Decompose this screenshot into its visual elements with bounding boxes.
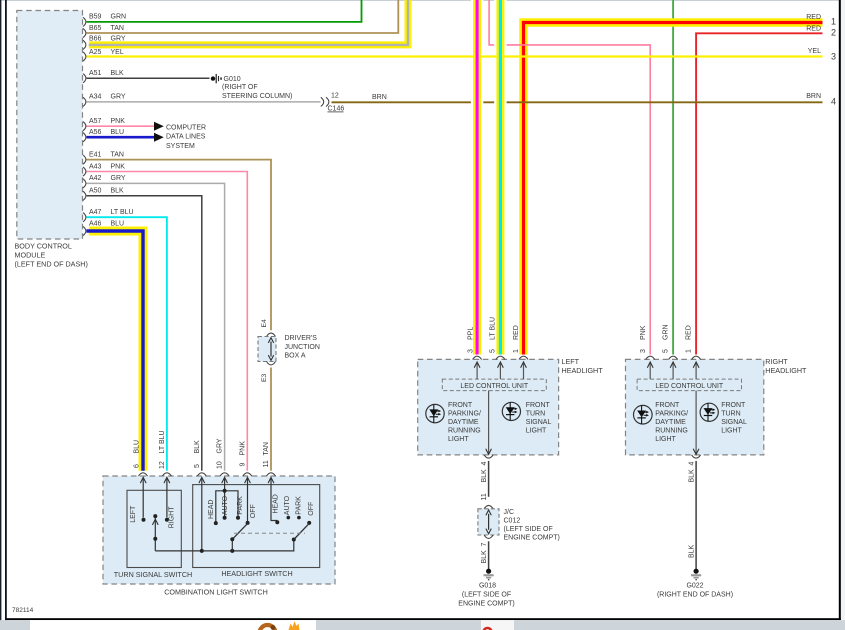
svg-text:B65: B65 [89,25,102,32]
svg-text:AUTO: AUTO [222,495,229,515]
svg-text:FRONT: FRONT [526,402,551,409]
svg-text:5: 5 [490,349,497,353]
pin A46 connector [83,226,86,235]
svg-text:RED: RED [513,325,520,340]
svg-text:G018: G018 [479,583,496,590]
LED front parking/DRL right [634,405,653,424]
svg-text:DAYTIME: DAYTIME [655,419,686,426]
wire A56 BLU [87,136,155,139]
connector left headlight pin 1 [519,356,528,359]
ground G022 [694,569,699,574]
svg-text:ENGINE COMPT): ENGINE COMPT) [504,534,560,541]
connector C012 bottom [484,535,493,538]
connector right headlight pin 4 [692,455,701,458]
wire A46 BLU (yellow tracer) [89,231,143,471]
svg-text:LIGHT: LIGHT [448,436,469,443]
node rail-pivot junction [230,549,234,553]
svg-text:DATA LINES: DATA LINES [166,134,206,141]
svg-text:SIGNAL: SIGNAL [721,419,747,426]
svg-text:5: 5 [194,464,201,468]
wire B59 GRN [87,0,362,22]
svg-text:(RIGHT OF: (RIGHT OF [222,84,258,91]
svg-text:PNK: PNK [111,163,126,170]
connector pin 12 [162,473,171,476]
svg-text:RED: RED [806,25,821,32]
svg-text:RUNNING: RUNNING [655,427,688,434]
pin A50 connector [83,191,86,200]
connector pin 9 [243,473,252,476]
svg-text:BLK: BLK [111,188,125,195]
svg-text:TURN: TURN [721,410,740,417]
pin B65 connector [83,28,86,37]
svg-text:LIGHT: LIGHT [655,436,676,443]
svg-text:BLK: BLK [688,544,695,558]
svg-text:G010: G010 [224,76,241,83]
svg-text:OFF: OFF [250,504,257,518]
connector C012 top [484,505,493,508]
headlamp switch bracket (HEAD/AUTO/PARK tie) [216,491,238,523]
svg-text:PARKING/: PARKING/ [448,410,481,417]
left headlight pin3 internal arrow [476,363,478,379]
pin E41 connector [83,155,86,164]
wire RED 1 (yellow tracer, left headlight) [524,23,823,355]
pin A42 connector [83,179,86,188]
right headlight (dashed box) [626,359,764,455]
body control module U1 (dashed box) [17,11,83,240]
pin A43 connector [83,167,86,176]
pin A25 connector [83,52,86,61]
svg-text:RED: RED [806,14,821,21]
wire pin10 GRY internal [224,478,226,518]
svg-text:BOX A: BOX A [285,353,306,360]
svg-text:ENGINE COMPT): ENGINE COMPT) [458,601,514,608]
svg-text:LEFT: LEFT [562,357,580,366]
wire pin5 BLK internal [201,478,203,551]
svg-text:A50: A50 [89,188,102,195]
footer logo fragment 3 [484,628,492,630]
svg-text:E41: E41 [89,151,102,158]
svg-text:4: 4 [481,462,488,466]
svg-text:PARK: PARK [237,496,244,515]
connector right headlight pin 3 [646,356,655,359]
svg-text:A43: A43 [89,163,102,170]
svg-text:LEFT: LEFT [130,505,137,523]
svg-text:BLK: BLK [688,469,695,483]
svg-text:FRONT: FRONT [655,402,680,409]
svg-text:9: 9 [239,463,246,467]
wire A25 YEL 3 [87,55,823,57]
svg-text:HEAD: HEAD [272,494,279,513]
connector left headlight pin 3 [473,356,482,359]
svg-text:COMBINATION LIGHT SWITCH: COMBINATION LIGHT SWITCH [164,588,268,597]
node left contact [142,518,146,522]
svg-text:TURN SIGNAL SWITCH: TURN SIGNAL SWITCH [114,570,192,579]
svg-text:1: 1 [831,17,836,27]
frame/borders (decorative) [0,0,845,1]
svg-text:5: 5 [662,349,669,353]
svg-text:A57: A57 [89,118,102,125]
wire E41 TAN (to junction box) [87,160,272,331]
LED front turn signal right [700,403,718,421]
wire B65 TAN [87,0,399,33]
wire A34 GRY [87,101,321,103]
svg-text:AUTO: AUTO [284,495,291,515]
ground G018 [486,569,491,574]
data-line arrow A56 [154,133,164,142]
svg-text:JUNCTION: JUNCTION [285,344,320,351]
svg-text:FRONT: FRONT [721,402,746,409]
svg-text:(LEFT SIDE OF: (LEFT SIDE OF [504,526,553,533]
svg-text:HEAD: HEAD [208,500,215,519]
svg-text:2: 2 [831,27,836,37]
wire pin12 internal (right contact) [166,478,168,518]
svg-text:A47: A47 [89,209,102,216]
svg-text:COMPUTER: COMPUTER [166,124,206,131]
LED control unit right (dashed box) [637,379,741,391]
LED front parking/DRL left [426,404,444,422]
svg-text:1: 1 [513,349,520,353]
svg-text:YEL: YEL [808,48,821,55]
svg-text:4: 4 [688,462,695,466]
svg-text:3: 3 [831,52,836,62]
turn signal common pole [153,514,157,518]
svg-text:A25: A25 [89,49,102,56]
wire BRN 4 [332,101,823,103]
left headlight pin1 internal arrow [523,363,525,379]
svg-text:(LEFT END OF DASH): (LEFT END OF DASH) [15,260,88,269]
wire pin9 PNK internal (OFF contact) [247,478,249,521]
svg-text:PARK: PARK [295,496,302,515]
svg-text:TURN: TURN [526,410,545,417]
wire RED 2 (right headlight) [696,33,822,354]
svg-text:BLK: BLK [481,469,488,483]
LED control unit left (dashed box) [442,379,546,391]
svg-text:RIGHT: RIGHT [765,357,788,366]
wire LT BLU (yellow tracer, left headlight turn feed) [496,0,504,355]
svg-text:BLK: BLK [111,70,125,77]
svg-text:LT BLU: LT BLU [111,209,134,216]
svg-text:J/C: J/C [504,509,515,516]
connector C146 [321,97,324,106]
svg-text:(LEFT SIDE OF: (LEFT SIDE OF [462,592,511,599]
left headlight (dashed box) [418,359,559,455]
svg-text:OFF: OFF [308,502,315,516]
svg-text:BLU: BLU [111,129,125,136]
svg-text:3: 3 [467,349,474,353]
svg-text:PNK: PNK [640,325,647,340]
node OFF contact left [246,521,250,525]
svg-text:B59: B59 [89,14,102,21]
svg-text:FRONT: FRONT [448,402,473,409]
svg-text:BLK: BLK [194,440,201,454]
left headlight pin5 internal arrow [499,363,501,379]
svg-text:TAN: TAN [111,25,124,32]
svg-text:E3: E3 [261,373,268,382]
footer logo fragment 2 [289,621,300,630]
svg-text:RED: RED [685,325,692,340]
svg-text:1: 1 [685,349,692,353]
svg-text:LED CONTROL UNIT: LED CONTROL UNIT [460,383,529,390]
connector pin 6 [139,473,148,476]
pin B66 connector [83,40,86,49]
node PARK contact left [236,516,240,520]
right headlight pin1 internal arrow [695,363,697,379]
svg-text:GRY: GRY [217,438,224,453]
svg-text:DRIVER'S: DRIVER'S [285,335,318,342]
turn signal switch box [127,490,181,567]
svg-text:BODY CONTROL: BODY CONTROL [15,242,72,251]
node rail-blk junction [200,549,204,553]
wire BLK 7 (to G018) [488,541,490,569]
svg-text:RIGHT: RIGHT [169,506,176,529]
svg-text:10: 10 [217,461,224,469]
LED front turn signal left [502,402,520,420]
svg-text:YEL: YEL [111,49,124,56]
pin A56 connector [83,133,86,142]
node AUTO contact right [287,516,291,520]
right headlight pin3 internal arrow [649,363,651,379]
wire pin6 internal (left contact) [142,478,144,518]
wire A57 PNK [87,125,155,127]
svg-text:3: 3 [640,349,647,353]
connector left headlight pin 5 [496,356,505,359]
svg-text:A34: A34 [89,94,102,101]
wire A43 PNK [87,172,248,471]
footer logo fragment 1 [260,625,276,630]
wire PPL (yellow tracer, left headlight parking feed) [473,0,481,355]
wire GRN (right headlight turn signal feed) [672,0,674,355]
svg-text:(RIGHT END OF DASH): (RIGHT END OF DASH) [657,592,733,599]
right headlight pin5 internal arrow [672,363,674,379]
svg-text:HEADLIGHT: HEADLIGHT [562,366,604,375]
svg-text:LIGHT: LIGHT [526,427,547,434]
node PARK contact right [297,516,301,520]
wire BLK 4 (left) [488,461,490,497]
svg-text:MODULE: MODULE [15,251,46,260]
connector pin 5 [197,473,206,476]
connector right headlight pin 5 [669,356,678,359]
headlight switch box [193,485,320,568]
svg-text:DAYTIME: DAYTIME [448,419,479,426]
svg-text:SIGNAL: SIGNAL [526,419,552,426]
svg-text:TAN: TAN [111,151,124,158]
connector left headlight pin 4 [484,455,493,458]
wire A47 LT BLU [87,217,167,471]
svg-text:PNK: PNK [239,441,246,456]
wire BLK 4 (right, to G022) [695,461,697,569]
svg-text:11: 11 [481,493,488,500]
node HEAD contact right [275,520,279,524]
svg-text:RUNNING: RUNNING [448,427,481,434]
svg-text:PPL: PPL [467,327,474,340]
svg-text:LED CONTROL UNIT: LED CONTROL UNIT [655,383,724,390]
mechanical link (dashed) [234,532,305,534]
svg-text:G022: G022 [686,583,703,590]
svg-text:4: 4 [831,96,836,106]
svg-text:BRN: BRN [372,94,387,101]
wire A50 BLK [87,196,202,471]
svg-text:LT BLU: LT BLU [490,317,497,340]
svg-text:E4: E4 [261,319,268,328]
node OFF contact right [307,521,311,525]
svg-text:HEADLIGHT: HEADLIGHT [765,366,807,375]
white casing PPL wire [471,0,483,350]
switch blade left (pole to OFF) [232,523,247,539]
wire A42 GRY [87,183,225,470]
svg-text:GRY: GRY [111,94,126,101]
svg-text:A42: A42 [89,175,102,182]
svg-text:6: 6 [134,464,141,468]
svg-text:GRN: GRN [111,14,127,21]
pin A57 connector [83,122,86,131]
svg-text:STEERING COLUMN): STEERING COLUMN) [222,93,292,100]
combination light switch (dashed box) [103,476,335,584]
pin A51 connector [83,74,86,83]
svg-text:BLU: BLU [134,440,141,454]
svg-text:7: 7 [481,543,488,547]
svg-text:HEADLIGHT SWITCH: HEADLIGHT SWITCH [221,569,292,578]
wire A51 BLK [87,77,210,79]
svg-text:GRY: GRY [111,175,126,182]
ground G010 [211,76,215,80]
svg-text:782114: 782114 [12,607,34,614]
svg-text:BRN: BRN [806,93,821,100]
wire PNK (right headlight parking feed) [489,0,650,355]
svg-text:PNK: PNK [111,118,126,125]
connector pin 11 [267,473,276,476]
connector right headlight pin 1 [692,356,701,359]
pin A34 connector [83,97,86,106]
pin A47 connector [83,213,86,222]
svg-text:A56: A56 [89,129,102,136]
left headlight ground lead internal [488,391,490,455]
node HEAD contact left [214,521,218,525]
connector E4 [267,333,276,336]
driver's junction box A [258,337,276,362]
common rail wire [155,540,293,551]
switch blade right (pole to OFF) [294,523,309,539]
right headlight ground lead internal [695,391,697,455]
svg-text:LIGHT: LIGHT [721,427,742,434]
svg-text:BLK: BLK [481,550,488,564]
svg-text:SYSTEM: SYSTEM [166,143,195,150]
wire TAN (junction box to switch) [270,368,272,471]
node right contact [165,518,169,522]
connector pin 10 [220,473,229,476]
pin B59 connector [83,17,86,26]
svg-text:A51: A51 [89,70,102,77]
white casing LT BLU wire [494,0,506,350]
wire pin11 TAN internal (HEAD contact right) [271,478,277,521]
svg-text:12: 12 [331,93,339,100]
node AUTO contact left [223,516,227,520]
connector E3 [267,362,276,365]
wire B66 GRY (yellow tracer) [89,0,408,45]
svg-text:11: 11 [263,460,270,467]
data-line arrow A57 [154,122,164,131]
svg-text:PARKING/: PARKING/ [655,410,688,417]
junction connector C012 box [478,509,499,535]
svg-text:GRN: GRN [662,324,669,340]
svg-text:TAN: TAN [263,442,270,455]
svg-text:LT BLU: LT BLU [159,430,166,453]
svg-text:12: 12 [159,461,166,469]
svg-text:C012: C012 [504,517,521,524]
